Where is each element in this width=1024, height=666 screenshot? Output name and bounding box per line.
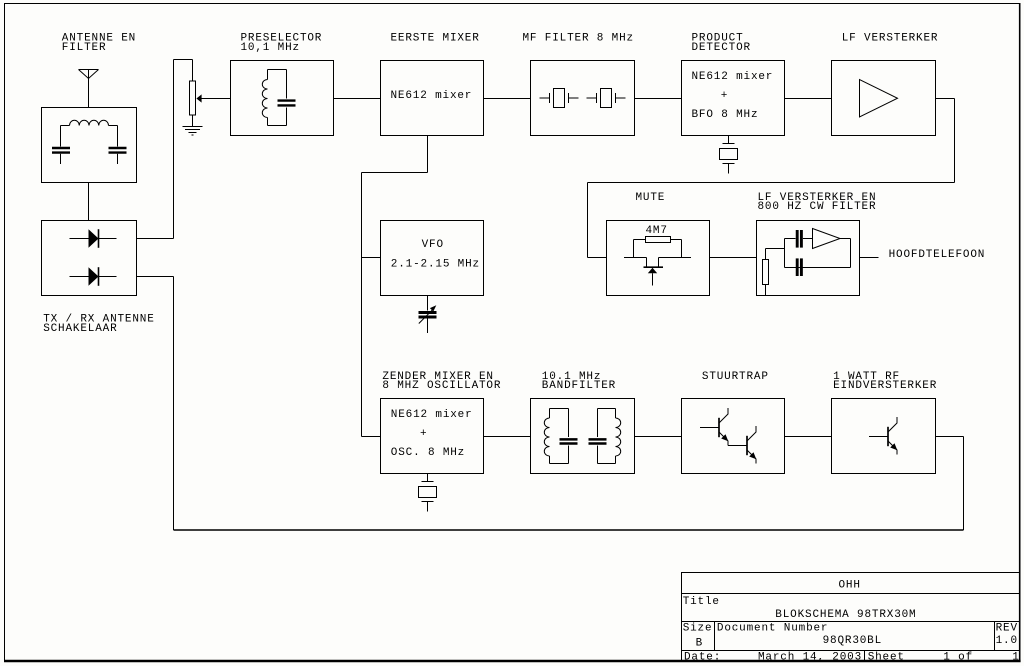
antenna <box>79 70 99 108</box>
svg-text:BLOKSCHEMA 98TRX30M: BLOKSCHEMA 98TRX30M <box>775 609 916 621</box>
wiper arrow <box>196 94 230 102</box>
wire eerste mixer to mf filter <box>484 98 531 100</box>
svg-text:8 MHZ OSCILLATOR: 8 MHZ OSCILLATOR <box>382 380 501 392</box>
svg-text:10,1 MHz: 10,1 MHz <box>241 42 300 54</box>
block lf versterker <box>832 61 936 136</box>
svg-text:1: 1 <box>1012 652 1019 664</box>
block mute <box>607 221 710 296</box>
block mf filter <box>531 61 635 136</box>
svg-text:98QR30BL: 98QR30BL <box>823 635 882 647</box>
svg-text:OHH: OHH <box>839 580 861 592</box>
svg-text:DETECTOR: DETECTOR <box>692 42 751 54</box>
svg-text:BANDFILTER: BANDFILTER <box>542 380 616 392</box>
svg-text:OSC. 8 MHz: OSC. 8 MHz <box>391 447 465 459</box>
svg-text:Date:: Date: <box>684 652 721 664</box>
svg-text:NE612 mixer: NE612 mixer <box>692 71 774 83</box>
svg-text:Title: Title <box>683 596 720 608</box>
wire vfo to tuning capacitor <box>427 296 429 311</box>
label TX / RX ANTENNE SCHAKELAAR <box>43 314 154 335</box>
wire eindversterker output to antenne schakelaar <box>137 277 964 531</box>
crystal X1 (mf filter) <box>540 89 579 108</box>
transistor (mute fet) <box>624 258 691 286</box>
document number 98QR30BL <box>823 635 882 647</box>
block zender mixer NE612 + osc <box>381 399 484 474</box>
svg-text:MF FILTER 8 MHz: MF FILTER 8 MHz <box>523 33 634 45</box>
block product detector NE612 + BFO <box>682 61 785 136</box>
wire mute to cw filter <box>710 257 757 259</box>
svg-text:VFO: VFO <box>422 239 444 251</box>
svg-text:EINDVERSTERKER: EINDVERSTERKER <box>833 380 937 392</box>
resistor (cw filter input) <box>763 249 785 296</box>
size B <box>696 637 703 649</box>
svg-text:B: B <box>696 637 703 649</box>
svg-text:1.0: 1.0 <box>996 635 1018 647</box>
svg-text:EERSTE MIXER: EERSTE MIXER <box>391 33 480 45</box>
title block REV <box>996 622 1018 634</box>
label 10.1 MHz BANDFILTER <box>542 371 616 392</box>
svg-text:FILTER: FILTER <box>62 42 107 54</box>
svg-text:March 14, 2003: March 14, 2003 <box>758 652 862 664</box>
svg-text:NE612 mixer: NE612 mixer <box>391 409 473 421</box>
capacitor (bandfilter tank 2) <box>589 409 607 464</box>
svg-text:Sheet: Sheet <box>868 652 905 664</box>
svg-text:Size: Size <box>683 622 713 634</box>
wire trunk up to potentiometer <box>174 60 193 239</box>
inductor (bandfilter tank 1) <box>544 409 568 464</box>
variable capacitor (vfo tuning) <box>419 305 437 333</box>
title block Size <box>683 622 713 634</box>
label 1 WATT RF EINDVERSTERKER <box>833 371 937 392</box>
wire bandfilter to stuurtrap <box>635 436 682 438</box>
inductor (preselector tank) <box>262 70 286 126</box>
label PRESELECTOR 10,1 MHz <box>241 33 323 54</box>
crystal BFO 8 MHz <box>720 136 738 174</box>
ground <box>183 127 203 136</box>
sheet total 1 <box>1012 652 1019 664</box>
label LF VERSTERKER <box>842 33 939 45</box>
wire product detector to lf versterker <box>785 98 832 100</box>
block bandfilter <box>531 399 635 474</box>
svg-text:NE612 mixer: NE612 mixer <box>391 90 473 102</box>
wire D1 to trunk <box>137 238 174 240</box>
op-amp (cw filter) <box>813 229 841 249</box>
crystal OSC 8 MHz <box>419 474 437 512</box>
value 4M7 <box>646 225 668 237</box>
transistor Q1 (stuurtrap) <box>700 408 728 446</box>
crystal X2 (mf filter) <box>587 89 626 108</box>
diode D2 (tx path) <box>70 267 117 286</box>
svg-text:MUTE: MUTE <box>636 192 666 204</box>
rev 1.0 <box>996 635 1018 647</box>
label MUTE <box>636 192 666 204</box>
svg-text:800 HZ CW FILTER: 800 HZ CW FILTER <box>758 201 877 213</box>
title block Date <box>684 652 721 664</box>
transistor Q3 (eindversterker) <box>869 417 897 455</box>
block eindversterker <box>832 399 936 474</box>
wire eerste mixer LO to vfo trunk <box>362 136 428 437</box>
capacitor right (antenne filter) <box>109 148 127 164</box>
svg-text:+: + <box>721 90 728 102</box>
svg-text:STUURTRAP: STUURTRAP <box>702 371 769 383</box>
block tx/rx antenne schakelaar <box>42 221 137 296</box>
wire antenne filter to tx/rx switch <box>88 183 90 221</box>
wire Q1 emitter to Q2 base <box>728 445 747 447</box>
net HOOFDTELEFOON <box>889 249 986 261</box>
svg-text:REV: REV <box>996 622 1018 634</box>
svg-text:4M7: 4M7 <box>646 225 668 237</box>
svg-text:LF VERSTERKER: LF VERSTERKER <box>842 33 939 45</box>
svg-text:BFO 8 MHz: BFO 8 MHz <box>692 109 759 121</box>
svg-text:2.1-2.15 MHz: 2.1-2.15 MHz <box>391 258 480 270</box>
title block text OHH <box>839 580 861 592</box>
block VFO <box>381 221 484 296</box>
wire preselector to eerste mixer <box>334 98 381 100</box>
block eerste mixer NE612 <box>381 61 484 136</box>
title BLOKSCHEMA 98TRX30M <box>775 609 916 621</box>
label STUURTRAP <box>702 371 769 383</box>
wire mf filter to product detector <box>635 98 682 100</box>
sheet 1 of <box>943 652 973 664</box>
wire zender mixer to bandfilter <box>484 436 531 438</box>
wire lf versterker to mute net <box>588 99 955 258</box>
capacitor C2 (cw filter feedback) <box>785 239 851 277</box>
date March 14, 2003 <box>758 652 862 664</box>
title block Document Number <box>717 622 828 634</box>
title block <box>682 573 1020 661</box>
resistor 4M7 (mute) <box>634 237 682 258</box>
label MF FILTER 8 MHz <box>523 33 634 45</box>
wire cw filter to hoofdtelefoon <box>860 257 879 259</box>
capacitor (bandfilter tank 1) <box>560 409 578 464</box>
label EERSTE MIXER <box>391 33 480 45</box>
capacitor (preselector tank) <box>278 70 296 126</box>
diode D1 (rx path) <box>70 229 117 248</box>
wire potentiometer to ground <box>192 115 194 127</box>
capacitor left (antenne filter) <box>52 148 70 164</box>
inductor (antenne filter) <box>61 120 118 146</box>
svg-text:HOOFDTELEFOON: HOOFDTELEFOON <box>889 249 986 261</box>
inductor (bandfilter tank 2) <box>598 409 621 464</box>
block antenne en filter <box>42 108 137 183</box>
svg-text:Document Number: Document Number <box>717 622 828 634</box>
label ZENDER MIXER EN 8 MHZ OSCILLATOR <box>382 371 501 392</box>
block preselector <box>231 61 334 136</box>
block stuurtrap <box>682 399 785 474</box>
capacitor C1 (cw filter) <box>785 230 813 268</box>
svg-text:+: + <box>420 428 427 440</box>
wire vfo output <box>362 257 381 259</box>
title block Title <box>683 596 720 608</box>
op-amp (lf versterker) <box>860 80 898 118</box>
block lf versterker en cw filter <box>757 221 860 296</box>
potentiometer (preselector afstemming) <box>190 81 196 115</box>
label ANTENNE EN FILTER <box>62 33 136 54</box>
label PRODUCT DETECTOR <box>692 33 751 54</box>
svg-text:1 of: 1 of <box>943 652 973 664</box>
wire stuurtrap to eindversterker <box>785 436 832 438</box>
title block Sheet <box>868 652 905 664</box>
label LF VERSTERKER EN 800 HZ CW FILTER <box>758 192 877 213</box>
transistor Q2 (stuurtrap) <box>747 426 756 464</box>
svg-text:SCHAKELAAR: SCHAKELAAR <box>43 323 117 335</box>
